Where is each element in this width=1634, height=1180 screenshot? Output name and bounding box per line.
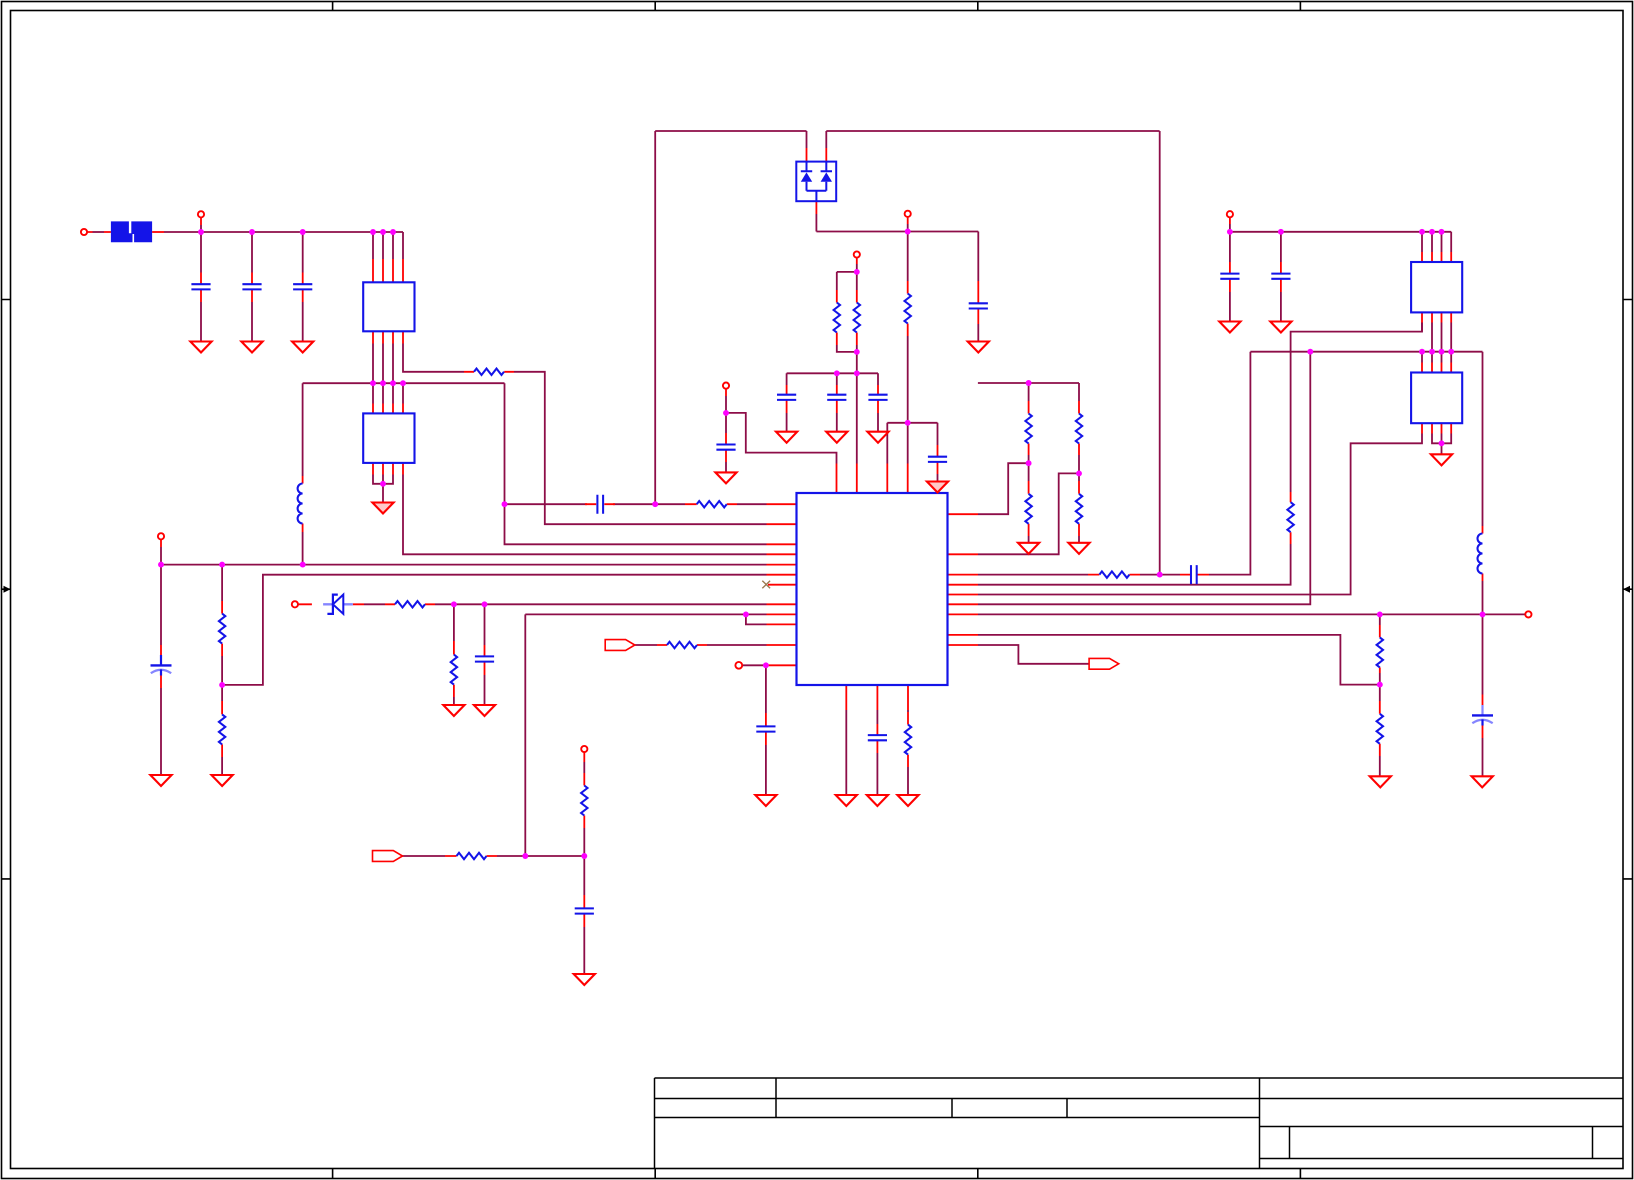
wire: flag FL3 feed from IC pin y=645 xyxy=(978,645,1089,664)
capacitor C16 (x=1229.9) xyxy=(1220,274,1239,279)
wire: link from chain junction up to y=574.7 row xyxy=(222,575,766,685)
wire: bus corner x=504.5 down xyxy=(505,383,767,544)
wire: port P7 row y=665.3 xyxy=(742,664,766,666)
ground (C9) xyxy=(867,432,888,443)
red: C3 stubs xyxy=(302,273,304,303)
wire: bus y=373.3 xyxy=(787,372,878,374)
resistor R14 (x=1079 upper) xyxy=(1076,414,1082,444)
resistor R7 (x=222.1 lower) xyxy=(219,714,225,744)
ground (C19) xyxy=(574,974,595,985)
right centre arrowhead xyxy=(1623,586,1630,593)
wire: x=978.3 cap column xyxy=(977,232,979,342)
ground (C6) xyxy=(968,342,989,353)
left centre arrow line xyxy=(2,588,11,590)
capacitor C9 (x=878) xyxy=(868,395,887,400)
ground (C12) xyxy=(474,705,495,716)
red: R11 stubs x=908 xyxy=(907,712,909,767)
ground (C11, pink) xyxy=(927,482,948,493)
wire: resistor chain x=222.1 xyxy=(221,565,223,775)
wire: y=504.2 row from bus to IC xyxy=(505,503,767,505)
port P2 xyxy=(198,211,204,217)
node: y=684.6 tap xyxy=(1377,682,1383,688)
wire: port P2 stub lower part xyxy=(200,225,202,232)
flag FL2 (y=856) xyxy=(373,851,403,862)
port P4 xyxy=(854,251,860,257)
capacitor C12 (x=484.5) xyxy=(475,656,494,661)
capacitor C1 xyxy=(191,284,210,289)
red: R4/R5 stubs xyxy=(837,290,857,345)
wire: top-left power bus y=232 xyxy=(201,231,403,233)
node: chain taps xyxy=(1026,460,1032,466)
wire: cap x=765.9 column xyxy=(765,665,767,795)
red: C19 stubs x=584.3 xyxy=(583,895,585,927)
ground (C1) xyxy=(190,342,211,353)
resistor R10 (flag row y=645) xyxy=(667,642,697,648)
no-connect X at IC pin y=584.8 xyxy=(762,581,770,589)
wire: P5 cap to ground xyxy=(725,413,727,473)
port P1 xyxy=(81,229,87,235)
resistor R5 (x=856.8) xyxy=(854,303,860,333)
wire: vertical x=1159.7 from ESD wire xyxy=(1159,131,1161,575)
right edge ticks xyxy=(1623,300,1633,879)
red: IC left pin stubs xyxy=(767,504,797,645)
wire: port P5 column and branch xyxy=(726,396,837,464)
capacitor C7 (x=786.6) xyxy=(777,395,796,400)
right centre arrow line xyxy=(1623,588,1633,590)
red: C13 stubs x=765.9 xyxy=(765,713,767,745)
port P10 xyxy=(581,746,587,752)
red: box3 top pin stubs xyxy=(1422,252,1451,262)
wire: R out to corner x=544.8 down to y=524.2 to IC xyxy=(514,372,767,524)
capacitor C19 (x=584.3) xyxy=(575,908,594,913)
red: R17 stubs x=1290.6 xyxy=(1290,492,1292,544)
wire: port P3 stub xyxy=(907,224,909,232)
red: U1 bottom pin stubs xyxy=(373,331,403,343)
red: U1 top pin stubs xyxy=(373,259,403,282)
wire: cap x=937.5 column xyxy=(937,423,939,482)
wire: C to gnd x=484.5 xyxy=(484,604,486,705)
wire: box4 bottom pins join to gnd xyxy=(1432,434,1451,455)
node: zener row taps xyxy=(451,601,457,607)
red: caps y=394 stubs xyxy=(787,385,878,413)
wire: U2 bottom pins join xyxy=(373,475,393,503)
capacitor C6 (x=978.3) xyxy=(969,303,988,308)
ground (C16) xyxy=(1219,322,1240,333)
wire: IC right y=584.7 up through resistor to box3 pin1 xyxy=(978,323,1422,585)
inductor L1 (x=302.6) xyxy=(298,484,303,524)
wire: U2 top pins from bus xyxy=(373,383,403,403)
wire: y=422.8 link row xyxy=(887,423,937,464)
resistor R15 (x=1079 lower) xyxy=(1076,494,1082,524)
wire: x=856.8 to IC top pin xyxy=(856,373,858,463)
node: y=504.2 taps xyxy=(502,501,508,507)
capacitor C3 xyxy=(293,284,312,289)
wire: IC right y=604.3 up to mid bus xyxy=(978,352,1310,605)
red: R16 stubs y=574.6 xyxy=(1088,574,1140,576)
red: C11 stubs x=937.5 xyxy=(937,445,939,474)
red: C18 polarized stubs x=1482.5 xyxy=(1482,695,1484,739)
resistor R4 (x=836.8) xyxy=(834,303,840,333)
TITLE BLOCK xyxy=(655,1078,1624,1169)
resistor R13 (x=1028.6 lower) xyxy=(1025,494,1031,524)
wire: bus y=564.6 from port P11 to IC xyxy=(161,564,767,566)
filter U2 xyxy=(363,413,414,463)
ESD diode array D1 xyxy=(796,162,836,202)
node: box4 ground join xyxy=(1439,440,1445,446)
flag FL3 (y=663.8) xyxy=(1089,658,1119,669)
red: R10 stubs y=645 xyxy=(657,644,707,646)
red: R2 stubs y=504.2 xyxy=(685,503,737,505)
wire: IC bottom pin x=846.3 to gnd xyxy=(845,710,847,795)
capacitor C11 (x=937.5) xyxy=(928,457,947,462)
ground (U2, pink) xyxy=(372,503,393,514)
wire: right bus y=383 xyxy=(978,382,1079,384)
resistor R21 (x=584.3) xyxy=(581,786,587,816)
wire: port P10 column chain xyxy=(583,762,585,974)
ground (C18) xyxy=(1472,776,1493,787)
wire: chain x=1028.6 xyxy=(1028,383,1030,543)
port P7 xyxy=(735,662,742,669)
node: bus y=564.6 junctions xyxy=(158,562,164,568)
filter U1 xyxy=(363,282,414,331)
node: port P7 tap xyxy=(763,662,769,668)
wire: port P1 lead middle segment xyxy=(93,231,105,233)
red: C6 stubs x=978.3 xyxy=(977,281,979,324)
node: y=574.6 tap xyxy=(1157,572,1163,578)
ground (C3) xyxy=(292,342,313,353)
capacitor C13 (x=765.9) xyxy=(756,726,775,731)
red: R14/R15 stubs x=1079 xyxy=(1078,401,1080,536)
wire: cap x=1280.9 column xyxy=(1280,232,1282,322)
ground (R13) xyxy=(1018,543,1039,554)
node: y=614.4 branch xyxy=(743,611,749,617)
resistor R16 (y=574.6 row) xyxy=(1099,571,1129,577)
capacitor C5 (horizontal, y=504.2) xyxy=(597,495,603,514)
red: L2 stubs x=1482.5 xyxy=(1482,526,1484,581)
red: R21 stubs x=584.3 xyxy=(583,773,585,828)
wire: C2 body wires xyxy=(251,232,253,342)
fuse F1 xyxy=(111,221,152,242)
ground (R7) xyxy=(212,775,233,786)
wire: IC bottom pin x=877.4 cap chain xyxy=(876,710,878,795)
red: U2 top pin stubs xyxy=(373,404,403,414)
wire: port P11 stub xyxy=(160,547,162,565)
red: fuse right lead xyxy=(152,231,164,233)
resistor R3 (x=907.7) xyxy=(905,294,911,324)
wire: inductor L1 column xyxy=(302,383,304,564)
wire: flag FL1 row y=645 xyxy=(635,644,767,646)
red: ESD top pin stubs xyxy=(807,148,827,162)
wire: x=907.7 column through resistor to IC pin xyxy=(907,232,909,464)
wire: vertical x=525.3 down to flag row xyxy=(524,614,526,856)
red: port P5 stub xyxy=(725,388,727,396)
ground (C7) xyxy=(776,432,797,443)
wire: IC right y=594.5 up to box4 pin1 xyxy=(978,434,1422,595)
node: mid bus y=351.7 xyxy=(1307,349,1313,355)
red: port P4 stub xyxy=(856,257,858,264)
wire: flag FL2 row y=856 xyxy=(403,855,585,857)
node: resistor pair join xyxy=(854,349,860,355)
wire: box3 top pins from bus xyxy=(1422,232,1451,252)
node: top right bus y=231.8 xyxy=(1227,229,1233,235)
wire: port P4 junction and resistor pair xyxy=(837,264,857,290)
wire: bus below U1 y=383.2 xyxy=(303,382,505,384)
ground (IC pin x=846.3) xyxy=(836,795,857,806)
resistor R1 (U1 pin4 row) xyxy=(474,369,504,375)
red: R1 stubs xyxy=(464,371,514,373)
red: R8 stubs y=604.3 xyxy=(385,603,435,605)
ground (C8) xyxy=(826,432,847,443)
red: box4 bottom pin stubs xyxy=(1422,423,1451,433)
ground (R11) xyxy=(897,795,918,806)
red: C15 stubs y=574.6 xyxy=(1180,574,1209,576)
red: R20 stubs y=856 xyxy=(445,855,497,857)
ground (C2) xyxy=(241,342,262,353)
ESD diode triangles (filled) xyxy=(801,172,812,181)
wire: IC right y=614.4 to port P8 xyxy=(978,613,1526,615)
wire: inductor/cap column x=1482.5 xyxy=(1482,352,1484,777)
ground (C14) xyxy=(867,795,888,806)
left edge ticks xyxy=(2,300,11,879)
resistor R18 (x=1379.8 upper) xyxy=(1377,637,1383,667)
wire: resistor pair bottoms join xyxy=(837,345,857,373)
resistor R20 (y=856 row) xyxy=(457,853,487,859)
red: C1 stubs xyxy=(200,273,202,303)
polarized capacitor C18 (x=1482.5) xyxy=(1472,705,1493,726)
node: bus y=373.3 xyxy=(834,370,840,376)
wire: R to gnd x=453.9 xyxy=(453,604,455,705)
red: port P2 stub xyxy=(200,217,202,225)
wire: ESD top-right branch to x=1159.6 xyxy=(826,131,1159,148)
resistor R12 (x=1028.6 upper) xyxy=(1025,414,1031,444)
filter U4 xyxy=(1411,262,1462,312)
left centre arrowhead xyxy=(4,586,11,593)
wire: U1 pin4 to R series then right xyxy=(403,344,464,372)
node: flag row y=856 xyxy=(522,853,528,859)
wire: IC right y=514.2 to chain xyxy=(978,463,1029,514)
red: R18/R19 stubs x=1379.8 xyxy=(1379,625,1381,756)
red: port P9 stub xyxy=(1229,217,1231,224)
ground (C10) xyxy=(715,472,736,483)
node: bus y=383.2 junctions xyxy=(370,380,376,386)
wire: port P9 stub xyxy=(1229,224,1231,232)
node: port P4 tap xyxy=(854,269,860,275)
port P8 xyxy=(1525,611,1531,617)
red: C5 horiz cap stubs xyxy=(585,503,615,505)
red: zener lead stubs xyxy=(298,603,364,605)
inductor L2 (x=1482.5) xyxy=(1478,534,1483,574)
wire: top-right bus y=231.8 xyxy=(1230,231,1451,233)
red: IC top pin stubs xyxy=(837,464,908,494)
red: C14 stubs x=877.4 xyxy=(876,724,878,753)
resistor R2 (y=504.2 row) xyxy=(697,501,727,507)
capacitor C15 (horizontal, y=574.6) xyxy=(1191,565,1197,584)
red: C17 stubs x=1280.9 xyxy=(1280,262,1282,292)
wire: fuse output to first junction xyxy=(164,231,201,233)
node: U2 ground join xyxy=(380,481,386,487)
red: C2 stubs xyxy=(251,273,253,303)
node: resistor chain x=222.1 xyxy=(219,682,225,688)
bottom edge ticks xyxy=(333,1169,1301,1179)
capacitor C17 (x=1280.9) xyxy=(1271,274,1290,279)
ground (R9) xyxy=(443,705,464,716)
node: right bus y=383 xyxy=(1026,380,1032,386)
ground (C13) xyxy=(755,795,776,806)
wire: cap x=1229.9 column xyxy=(1229,232,1231,322)
red: U2 bottom pin stubs xyxy=(373,463,403,475)
resistor R8 (zener row) xyxy=(395,601,425,607)
node: bus y=232 junctions xyxy=(198,229,204,235)
capacitor C2 xyxy=(242,284,261,289)
resistor R6 (x=222.1 upper) xyxy=(219,614,225,644)
capacitor C10 (x=726) xyxy=(716,445,735,450)
wire: zener row y=604.3 xyxy=(364,603,767,605)
zener diode Z1 xyxy=(323,595,353,614)
wire: box4 top pins from mid bus xyxy=(1422,352,1451,363)
red: C16 stubs x=1229.9 xyxy=(1229,262,1231,292)
ground (C4) xyxy=(150,775,171,786)
wire: IC right y=554.3 to chain xyxy=(978,473,1079,554)
red: C12 stubs x=484.5 xyxy=(484,645,486,675)
node: y=614.4 taps xyxy=(1377,611,1383,617)
wire: IC bottom pin x=908 resistor chain xyxy=(907,710,909,795)
wire: polarized cap C4 column xyxy=(160,565,162,775)
wire: box3 bottom pins to mid bus xyxy=(1422,323,1451,352)
wire: U1 bottom pins 1-3 to bus y=383.2 xyxy=(373,344,393,384)
capacitor C8 (x=836.8) xyxy=(827,395,846,400)
wire: IC right y=634.9 down and to resistor chain xyxy=(978,635,1380,685)
wire: ESD centre tap down and right xyxy=(816,214,978,232)
red: L1 stubs xyxy=(302,476,304,532)
red: R9 stubs x=453.9 xyxy=(453,641,455,697)
wire: ESD top-left branch xyxy=(655,131,806,148)
node: y=422.8 link xyxy=(905,420,911,426)
ground (R19) xyxy=(1370,776,1391,787)
port P11 xyxy=(158,533,164,539)
red: C4 polarized stubs xyxy=(160,539,162,688)
red: C10 stubs x=726 xyxy=(725,433,727,462)
port P6 xyxy=(292,601,298,607)
red: IC right pin stubs xyxy=(948,514,979,645)
port P9 xyxy=(1227,211,1233,217)
node: port P5 tap xyxy=(723,410,729,416)
red: port P1 lead to fuse xyxy=(87,231,111,233)
red: R3 stubs x=907.7 xyxy=(907,281,909,336)
red: R6/R7 stubs x=222.1 xyxy=(221,601,223,757)
ground (C17) xyxy=(1270,322,1291,333)
resistor R9 (x=453.9) xyxy=(451,655,457,685)
wire: cap columns under bus y=373.3 xyxy=(787,373,878,431)
port P3 xyxy=(905,211,911,217)
wire: C1 body wires xyxy=(200,232,202,342)
polarized capacitor C4 (x=161) xyxy=(151,655,172,676)
ground (box4 centre) xyxy=(1431,454,1452,465)
wire: IC right y=574.6 through R and C up at x=1250.4 xyxy=(978,352,1250,575)
wire: mid bus y=351.7 xyxy=(1250,351,1482,353)
top edge ticks xyxy=(333,2,1301,11)
ground (R15) xyxy=(1068,543,1089,554)
red: ESD bottom pin stub xyxy=(815,201,817,214)
resistor R11 (x=908 under IC) xyxy=(905,725,911,755)
red: port P3 stub xyxy=(907,217,909,224)
resistor R19 (x=1379.8 lower) xyxy=(1377,714,1383,744)
red: IC NC pin stub xyxy=(768,584,797,586)
red: box3 bottom pin stubs xyxy=(1422,312,1451,322)
node: ESD tap row xyxy=(905,229,911,235)
wire: vertical x=655.2 from ESD top wire xyxy=(654,131,656,504)
filter U5 xyxy=(1411,373,1462,424)
wire: C3 body wires xyxy=(302,232,304,342)
red: port P7 net red to IC xyxy=(766,664,797,666)
wire: U1 top pin drops from bus xyxy=(373,232,403,259)
red: IC bottom pin stubs xyxy=(846,685,908,710)
resistor R17 (x=1290.6) xyxy=(1287,502,1293,532)
wire: U2 pin4 down to y=554.3 then right to IC xyxy=(403,475,767,555)
wire: chain x=1379.8 xyxy=(1379,614,1381,776)
capacitor C14 (x=877.4) xyxy=(868,735,887,740)
wire: chain x=1079 xyxy=(1078,383,1080,543)
port P5 xyxy=(723,383,729,389)
flag FL1 (y=645) xyxy=(605,640,635,651)
wire: y=614.4 row with branch to 624.4 xyxy=(525,614,766,624)
IC U3 xyxy=(797,493,948,685)
red: R12/R13 stubs x=1028.6 xyxy=(1028,401,1030,536)
red: port P10 stub xyxy=(583,752,585,762)
red: box4 top pin stubs xyxy=(1422,363,1451,373)
